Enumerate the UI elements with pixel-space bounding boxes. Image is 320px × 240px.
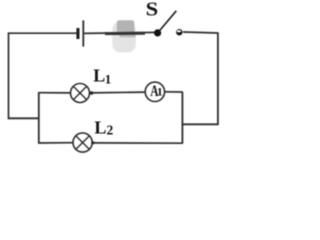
switch lever arm [158, 11, 176, 33]
svg-text:1: 1 [157, 85, 163, 99]
wire bottom branch right segment [93, 142, 183, 144]
wire thicker segment through smudge [105, 32, 145, 35]
svg-text:S: S [146, 0, 159, 20]
wire switch to top-right corner [183, 32, 218, 33]
svg-text:2: 2 [107, 122, 114, 137]
lamp L2 [73, 133, 92, 152]
junction dot after L1 [90, 91, 93, 94]
ammeter A1 [145, 82, 164, 101]
svg-text:L: L [93, 65, 105, 85]
wire inner box right vertical [181, 92, 183, 143]
wire left stub to inner box [8, 117, 40, 119]
wire top branch left segment [38, 92, 70, 94]
wire outer right vertical [217, 32, 219, 125]
battery cell negative plate (short thick) [76, 28, 79, 39]
junction dot after L2 [91, 141, 94, 144]
wire inner box left vertical [38, 93, 40, 144]
battery cell positive plate (long thin) [82, 20, 84, 46]
switch right terminal dot [176, 29, 182, 35]
switch left terminal dot [154, 29, 161, 36]
wire outer left vertical [8, 32, 10, 119]
grey smudge mark [112, 20, 136, 52]
svg-text:L: L [94, 117, 106, 137]
wire top branch right segment [165, 91, 183, 93]
wire top-left horizontal (battery to left corner) [9, 32, 77, 34]
wire top branch middle segment [92, 91, 146, 94]
lamp L1 [71, 84, 90, 103]
svg-text:1: 1 [105, 72, 112, 87]
wire bottom branch left segment [38, 142, 73, 144]
wire right stub to inner box [182, 123, 218, 125]
wire battery to switch [84, 32, 156, 33]
